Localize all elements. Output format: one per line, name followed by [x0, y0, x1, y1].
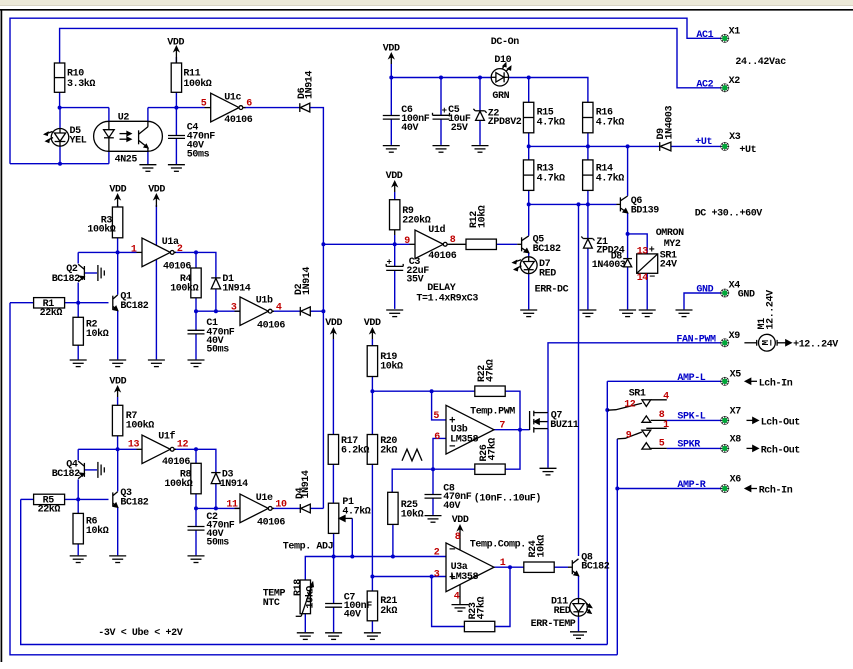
pad X2: [720, 83, 729, 92]
wire temp setpoint bus: [305, 557, 446, 581]
svg-text:6: 6: [434, 432, 440, 443]
wire power top rail: [391, 77, 491, 79]
svg-text:22kΩ: 22kΩ: [40, 307, 63, 319]
wire R23 to pin3: [432, 577, 465, 627]
svg-text:VDD: VDD: [167, 38, 184, 49]
wire C8 bottom: [432, 498, 434, 515]
label D9 (rotated): [656, 105, 675, 139]
arrow Rch-Out: [747, 446, 759, 452]
transistor Q1: [113, 295, 118, 311]
wire R4 bottom: [195, 298, 197, 311]
ground D7: [520, 310, 537, 317]
label D4 (rotated): [295, 470, 312, 499]
svg-text:100kΩ: 100kΩ: [183, 78, 211, 90]
label C4: [187, 123, 215, 161]
svg-text:24..42Vac: 24..42Vac: [735, 57, 786, 68]
wire C3 top: [394, 244, 396, 266]
resistor R24: [524, 562, 554, 572]
svg-text:SPKR: SPKR: [677, 440, 700, 451]
diode D9: [660, 142, 671, 151]
wire C6 leads: [390, 78, 392, 145]
ground Z2: [472, 146, 489, 153]
svg-text:50ms: 50ms: [206, 538, 229, 549]
label R24 (rotated): [528, 535, 548, 558]
wire Q3 collector: [117, 449, 119, 491]
svg-text:+12..24V: +12..24V: [793, 340, 838, 351]
svg-text:AC1: AC1: [696, 30, 713, 41]
wire R16 bottom R14 top: [587, 133, 589, 160]
wire opto LED return: [10, 151, 109, 163]
label U1f: [128, 430, 191, 468]
svg-text:X7: X7: [730, 407, 742, 418]
svg-text:U1c: U1c: [224, 93, 241, 104]
svg-text:11: 11: [226, 500, 238, 511]
svg-text:40V: 40V: [344, 609, 361, 620]
svg-text:DC-On: DC-On: [491, 37, 519, 48]
resistor R17: [328, 435, 338, 465]
ground C5: [433, 146, 450, 153]
svg-text:BC182: BC182: [533, 244, 561, 255]
wire FAN-PWM line: [548, 343, 721, 413]
relay contact 1 NO pin8: [642, 416, 667, 422]
wire emitter node to coil: [628, 234, 648, 254]
wire AC2 rail: [60, 28, 721, 87]
svg-text:Temp. ADJ: Temp. ADJ: [283, 542, 333, 553]
label Q3: [120, 488, 148, 509]
svg-text:VDD: VDD: [109, 184, 126, 195]
svg-text:2kΩ: 2kΩ: [380, 444, 397, 456]
svg-text:10kΩ: 10kΩ: [477, 205, 489, 228]
label R12 (rotated): [469, 205, 489, 228]
VDD arrow R9: [393, 182, 397, 193]
resistor R13: [523, 160, 533, 191]
wire D8 bottom: [627, 267, 629, 310]
wire R7 bottom: [117, 436, 119, 450]
wire R1 left: [10, 302, 34, 304]
svg-text:Temp.Comp.: Temp.Comp.: [470, 540, 526, 551]
diode D4: [300, 504, 310, 513]
pad X9: [720, 338, 729, 347]
wire power top rail right of D10: [508, 78, 588, 103]
resistor R15: [523, 102, 533, 133]
wire error collector rail: [578, 204, 580, 556]
wire Q4 base stub: [84, 469, 97, 471]
svg-text:50ms: 50ms: [187, 149, 210, 160]
diode D8: [623, 259, 632, 267]
net label AMP-L: [677, 373, 705, 384]
wire pin6 U3b: [433, 438, 446, 469]
resistor R1: [34, 298, 65, 308]
wire R13 bottom: [528, 190, 530, 204]
net label SPKR: [677, 440, 700, 451]
wire C3 bottom: [394, 271, 396, 309]
pad X3: [720, 142, 729, 151]
label relay SR1: [637, 228, 684, 284]
diode D1: [211, 278, 220, 289]
svg-text:BC182: BC182: [120, 301, 148, 312]
svg-text:4.7kΩ: 4.7kΩ: [342, 506, 370, 518]
relay contact 2 NO pin5: [642, 443, 667, 449]
transistor Q8: [568, 559, 579, 576]
VDD arrow R3: [116, 195, 120, 208]
label X6 Rch-In: [730, 475, 793, 497]
label D8: [592, 251, 626, 271]
resistor R6: [73, 513, 83, 544]
svg-text:10kΩ: 10kΩ: [536, 535, 548, 558]
svg-text:47kΩ: 47kΩ: [476, 596, 488, 619]
label VDD R7: [109, 376, 126, 387]
wire R24 to Q8 base: [554, 566, 568, 568]
wire R8 top: [195, 449, 197, 463]
svg-text:3: 3: [434, 570, 440, 581]
svg-text:VDD: VDD: [452, 515, 469, 526]
capacitor C1: [188, 330, 205, 334]
svg-text:BC182: BC182: [581, 562, 609, 573]
transistor Q5: [517, 236, 529, 253]
wire D7 to ground: [528, 273, 530, 309]
wire AMP-R line: [617, 488, 720, 490]
wire Q1 emitter: [117, 310, 119, 359]
wire R21 bottom: [371, 621, 373, 632]
label U1e: [226, 493, 287, 529]
svg-text:U1e: U1e: [256, 493, 273, 504]
wire Q8 emitter to D11: [578, 576, 580, 599]
net label SPK-L: [677, 412, 705, 423]
svg-text:10kΩ: 10kΩ: [86, 328, 109, 340]
label R18 (rotated): [293, 579, 317, 609]
svg-text:VDD: VDD: [325, 318, 342, 329]
wire GND pad: [684, 293, 721, 309]
svg-text:X3: X3: [729, 132, 741, 143]
resistor R23: [464, 621, 494, 631]
label R11: [183, 69, 211, 90]
wire coil bottom: [646, 273, 648, 309]
capacitor C3: [386, 264, 403, 271]
svg-text:25V: 25V: [451, 123, 468, 134]
label VDD U3a: [452, 515, 469, 526]
LED D11: [570, 599, 592, 617]
svg-text:40106: 40106: [163, 262, 191, 273]
svg-text:4N25: 4N25: [115, 155, 138, 166]
wire P1 bottom: [333, 533, 335, 556]
svg-text:8: 8: [455, 532, 461, 543]
svg-text:−: −: [449, 544, 456, 556]
wire R20 bottom to R21: [371, 464, 373, 591]
svg-text:+: +: [442, 106, 447, 116]
optocoupler U2: [94, 121, 163, 151]
ground Q1: [109, 360, 126, 367]
VDD arrow C6: [389, 54, 393, 65]
svg-text:VDD: VDD: [364, 318, 381, 329]
LED D10: [491, 63, 511, 86]
svg-text:AC2: AC2: [696, 80, 713, 91]
svg-text:Lch-In: Lch-In: [759, 377, 793, 389]
label X9: [729, 331, 741, 342]
wire Q1 collector: [117, 252, 119, 294]
relay contact group 1 blade pin12: [608, 403, 642, 410]
wire D11 to ground: [578, 616, 580, 631]
wire R8 bottom: [195, 494, 197, 509]
capacitor C2: [188, 527, 205, 531]
wire Z1 leads: [587, 204, 589, 309]
svg-text:RED: RED: [539, 268, 556, 279]
relay contact 2 NC pin1: [642, 428, 667, 436]
label C6: [401, 105, 429, 134]
svg-text:OMRON: OMRON: [656, 228, 684, 239]
label X2: [729, 76, 741, 87]
LED D5: [45, 129, 69, 147]
label R21: [380, 596, 397, 617]
svg-text:1N914: 1N914: [222, 284, 250, 295]
wire VDD to R17: [332, 339, 334, 435]
svg-text:BUZ11: BUZ11: [550, 420, 578, 431]
svg-text:5: 5: [201, 99, 207, 110]
label Ube range: [98, 627, 182, 639]
svg-text:1N914: 1N914: [301, 470, 312, 498]
wire U3a out to R24: [494, 566, 524, 568]
wire relay common 9 rail: [616, 439, 618, 655]
label M1 (rotated): [757, 290, 777, 330]
svg-text:9: 9: [626, 430, 632, 441]
inverter U1d: [410, 230, 450, 259]
svg-text:FAN-PWM: FAN-PWM: [676, 335, 716, 346]
label U3a: [434, 532, 526, 602]
resistor R25: [388, 492, 398, 524]
inverter U1c: [205, 93, 246, 122]
ground C7: [325, 633, 342, 640]
wire pin3 U3a: [372, 576, 446, 578]
resistor R5: [34, 494, 65, 504]
svg-text:9: 9: [404, 236, 410, 247]
VDD arrow R17: [331, 329, 335, 340]
svg-text:100kΩ: 100kΩ: [126, 419, 154, 431]
svg-text:4.7kΩ: 4.7kΩ: [537, 117, 565, 129]
svg-text:6.2kΩ: 6.2kΩ: [341, 444, 369, 456]
wire Q2 emitter down: [77, 283, 79, 303]
label R16: [596, 107, 624, 128]
label Q4: [52, 459, 80, 480]
svg-text:35V: 35V: [406, 274, 423, 285]
svg-text:D10: D10: [494, 55, 511, 66]
svg-text:220kΩ: 220kΩ: [402, 215, 430, 227]
label D1: [222, 274, 250, 294]
ground C2: [188, 556, 205, 563]
wire ramp node: [372, 390, 474, 392]
pad X4: [720, 289, 729, 298]
label C8: [443, 483, 541, 512]
svg-text:−: −: [649, 273, 655, 284]
svg-text:1: 1: [500, 558, 506, 569]
label X5 Lch-In: [730, 370, 793, 390]
wire VDD node to C6: [390, 64, 392, 78]
ground C8: [425, 516, 442, 523]
label C5: [442, 105, 471, 134]
pad X6: [720, 484, 729, 493]
ground C4: [168, 165, 185, 172]
label U1c: [201, 93, 253, 126]
wire R3 bottom: [117, 238, 119, 253]
resistor R19: [367, 346, 377, 377]
inverter U1e: [235, 494, 275, 523]
svg-text:40106: 40106: [257, 517, 285, 528]
label Q1: [120, 291, 148, 312]
pad X5: [720, 377, 729, 386]
ground Q4 base (rotated): [98, 462, 104, 478]
label X4 GND: [729, 281, 755, 301]
wire C7 top: [333, 557, 335, 604]
ground Q7: [540, 468, 557, 475]
wire R3 node to U1a input: [78, 251, 136, 253]
svg-text:−: −: [449, 442, 456, 454]
svg-text:10kΩ: 10kΩ: [305, 586, 317, 609]
svg-text:14: 14: [637, 273, 649, 284]
inverter U1a: [137, 238, 177, 267]
wire inner bottom bus: [21, 499, 608, 644]
label R14: [596, 164, 624, 185]
wire C4 bottom: [175, 138, 177, 164]
svg-text:SPK-L: SPK-L: [677, 412, 705, 423]
svg-text:X5: X5: [730, 370, 742, 381]
wire Q3 emitter: [117, 507, 119, 555]
svg-text:22kΩ: 22kΩ: [38, 504, 61, 516]
svg-text:2: 2: [434, 547, 440, 558]
wire C8 top: [432, 469, 434, 494]
label Q8: [581, 553, 609, 573]
svg-text:1N4003: 1N4003: [592, 260, 626, 271]
transistor Q6: [617, 196, 628, 213]
label R2: [86, 320, 109, 340]
wire D5 bottom lead: [59, 146, 61, 164]
label Q6: [631, 196, 659, 216]
label R9: [402, 206, 430, 226]
label DC +30..+60V: [695, 208, 763, 219]
svg-text:Rch-In: Rch-In: [759, 485, 793, 497]
capacitor C7: [325, 604, 342, 608]
label R1: [40, 299, 63, 319]
label VDD R11: [167, 38, 184, 49]
wire D6 to timing bus: [310, 108, 323, 509]
svg-text:SR1: SR1: [629, 388, 646, 399]
capacitor C4: [168, 136, 185, 139]
label R22 (rotated): [477, 359, 497, 382]
capacitor C8: [425, 495, 442, 499]
svg-text:4: 4: [454, 591, 460, 602]
wire feedback R26: [392, 469, 475, 492]
label R15: [537, 107, 565, 128]
svg-text:13: 13: [637, 246, 649, 257]
label R23 (rotated): [468, 596, 488, 619]
label TEMP NTC: [263, 589, 286, 609]
wire relay common 12 rail: [606, 381, 608, 644]
svg-text:Lch-Out: Lch-Out: [761, 417, 801, 429]
resistor R18 NTC: [296, 580, 314, 616]
label U1d: [404, 224, 456, 262]
svg-text:ERR-DC: ERR-DC: [535, 284, 569, 295]
svg-text:4.7kΩ: 4.7kΩ: [537, 173, 565, 185]
svg-text:1: 1: [131, 244, 137, 255]
svg-text:X1: X1: [729, 27, 741, 38]
opamp U3a: [446, 543, 494, 592]
resistor R4: [191, 268, 201, 298]
label C3: [387, 257, 430, 285]
wire R14 bottom: [587, 190, 589, 204]
label R25: [401, 500, 424, 520]
svg-text:1N4003: 1N4003: [665, 105, 676, 139]
svg-text:2: 2: [177, 244, 183, 255]
wire SPKR line: [667, 447, 721, 449]
label P1: [342, 497, 370, 518]
wire D5 top lead: [59, 108, 61, 129]
label VDD R19: [364, 318, 381, 329]
svg-text:X8: X8: [730, 435, 742, 446]
svg-text:U2: U2: [118, 113, 130, 124]
wire U1f power VDD R7: [117, 397, 119, 405]
svg-text:X2: X2: [729, 76, 741, 87]
wire U1f out: [174, 449, 216, 472]
svg-text:+Ut: +Ut: [739, 145, 756, 156]
wire opto collector to node 5: [148, 108, 205, 122]
label D6 (rotated): [297, 71, 316, 99]
label D11: [531, 596, 576, 630]
VDD arrow R19: [370, 329, 374, 340]
capacitor C5: [433, 113, 450, 119]
wire Q7 source: [547, 429, 549, 468]
wire node +Ut horizontal: [529, 145, 660, 147]
wire U1b out to D2: [272, 310, 300, 312]
svg-text:100kΩ: 100kΩ: [87, 224, 115, 236]
wire R18 bottom: [304, 614, 306, 633]
svg-text:40106: 40106: [162, 457, 190, 468]
label VDD C6: [383, 43, 400, 54]
wire U1e out to D4: [272, 507, 300, 509]
wire node11: [196, 507, 240, 509]
wire R11 top: [175, 57, 177, 63]
net label AMP-R: [677, 480, 705, 491]
motor M1: [744, 334, 791, 351]
svg-text:M: M: [761, 340, 771, 345]
svg-text:24V: 24V: [660, 260, 677, 271]
ground R18: [297, 633, 314, 640]
wire P1 wiper down: [351, 518, 353, 556]
resistor R8: [191, 463, 201, 494]
svg-text:BC182: BC182: [120, 498, 148, 509]
label X3 +Ut: [729, 132, 757, 156]
transistor Q4: [78, 461, 84, 479]
svg-text:VDD: VDD: [386, 171, 403, 182]
wire pin5 U3b: [432, 391, 446, 420]
label X8 Rch-Out: [730, 435, 801, 457]
svg-text:U1b: U1b: [256, 295, 273, 307]
wire R17 to P1: [332, 464, 334, 503]
wire VDD to R9: [394, 192, 396, 200]
svg-text:-3V < Ube < +2V: -3V < Ube < +2V: [98, 627, 182, 639]
label U2: [115, 113, 138, 166]
label C7: [344, 593, 372, 621]
label SR1 contacts: [624, 388, 669, 449]
label X1: [729, 27, 741, 38]
svg-text:AMP-L: AMP-L: [677, 373, 705, 384]
ground C6: [383, 146, 400, 153]
net label AC2: [696, 80, 713, 91]
wire base rail Q6: [529, 203, 617, 205]
svg-text:DELAY: DELAY: [427, 283, 455, 294]
svg-text:1N914: 1N914: [220, 479, 248, 490]
resistor R7: [112, 405, 122, 436]
label R17: [341, 436, 369, 456]
wire Q6 emitter node: [627, 213, 629, 234]
svg-text:7: 7: [499, 421, 505, 432]
svg-text:+Ut: +Ut: [695, 137, 712, 148]
